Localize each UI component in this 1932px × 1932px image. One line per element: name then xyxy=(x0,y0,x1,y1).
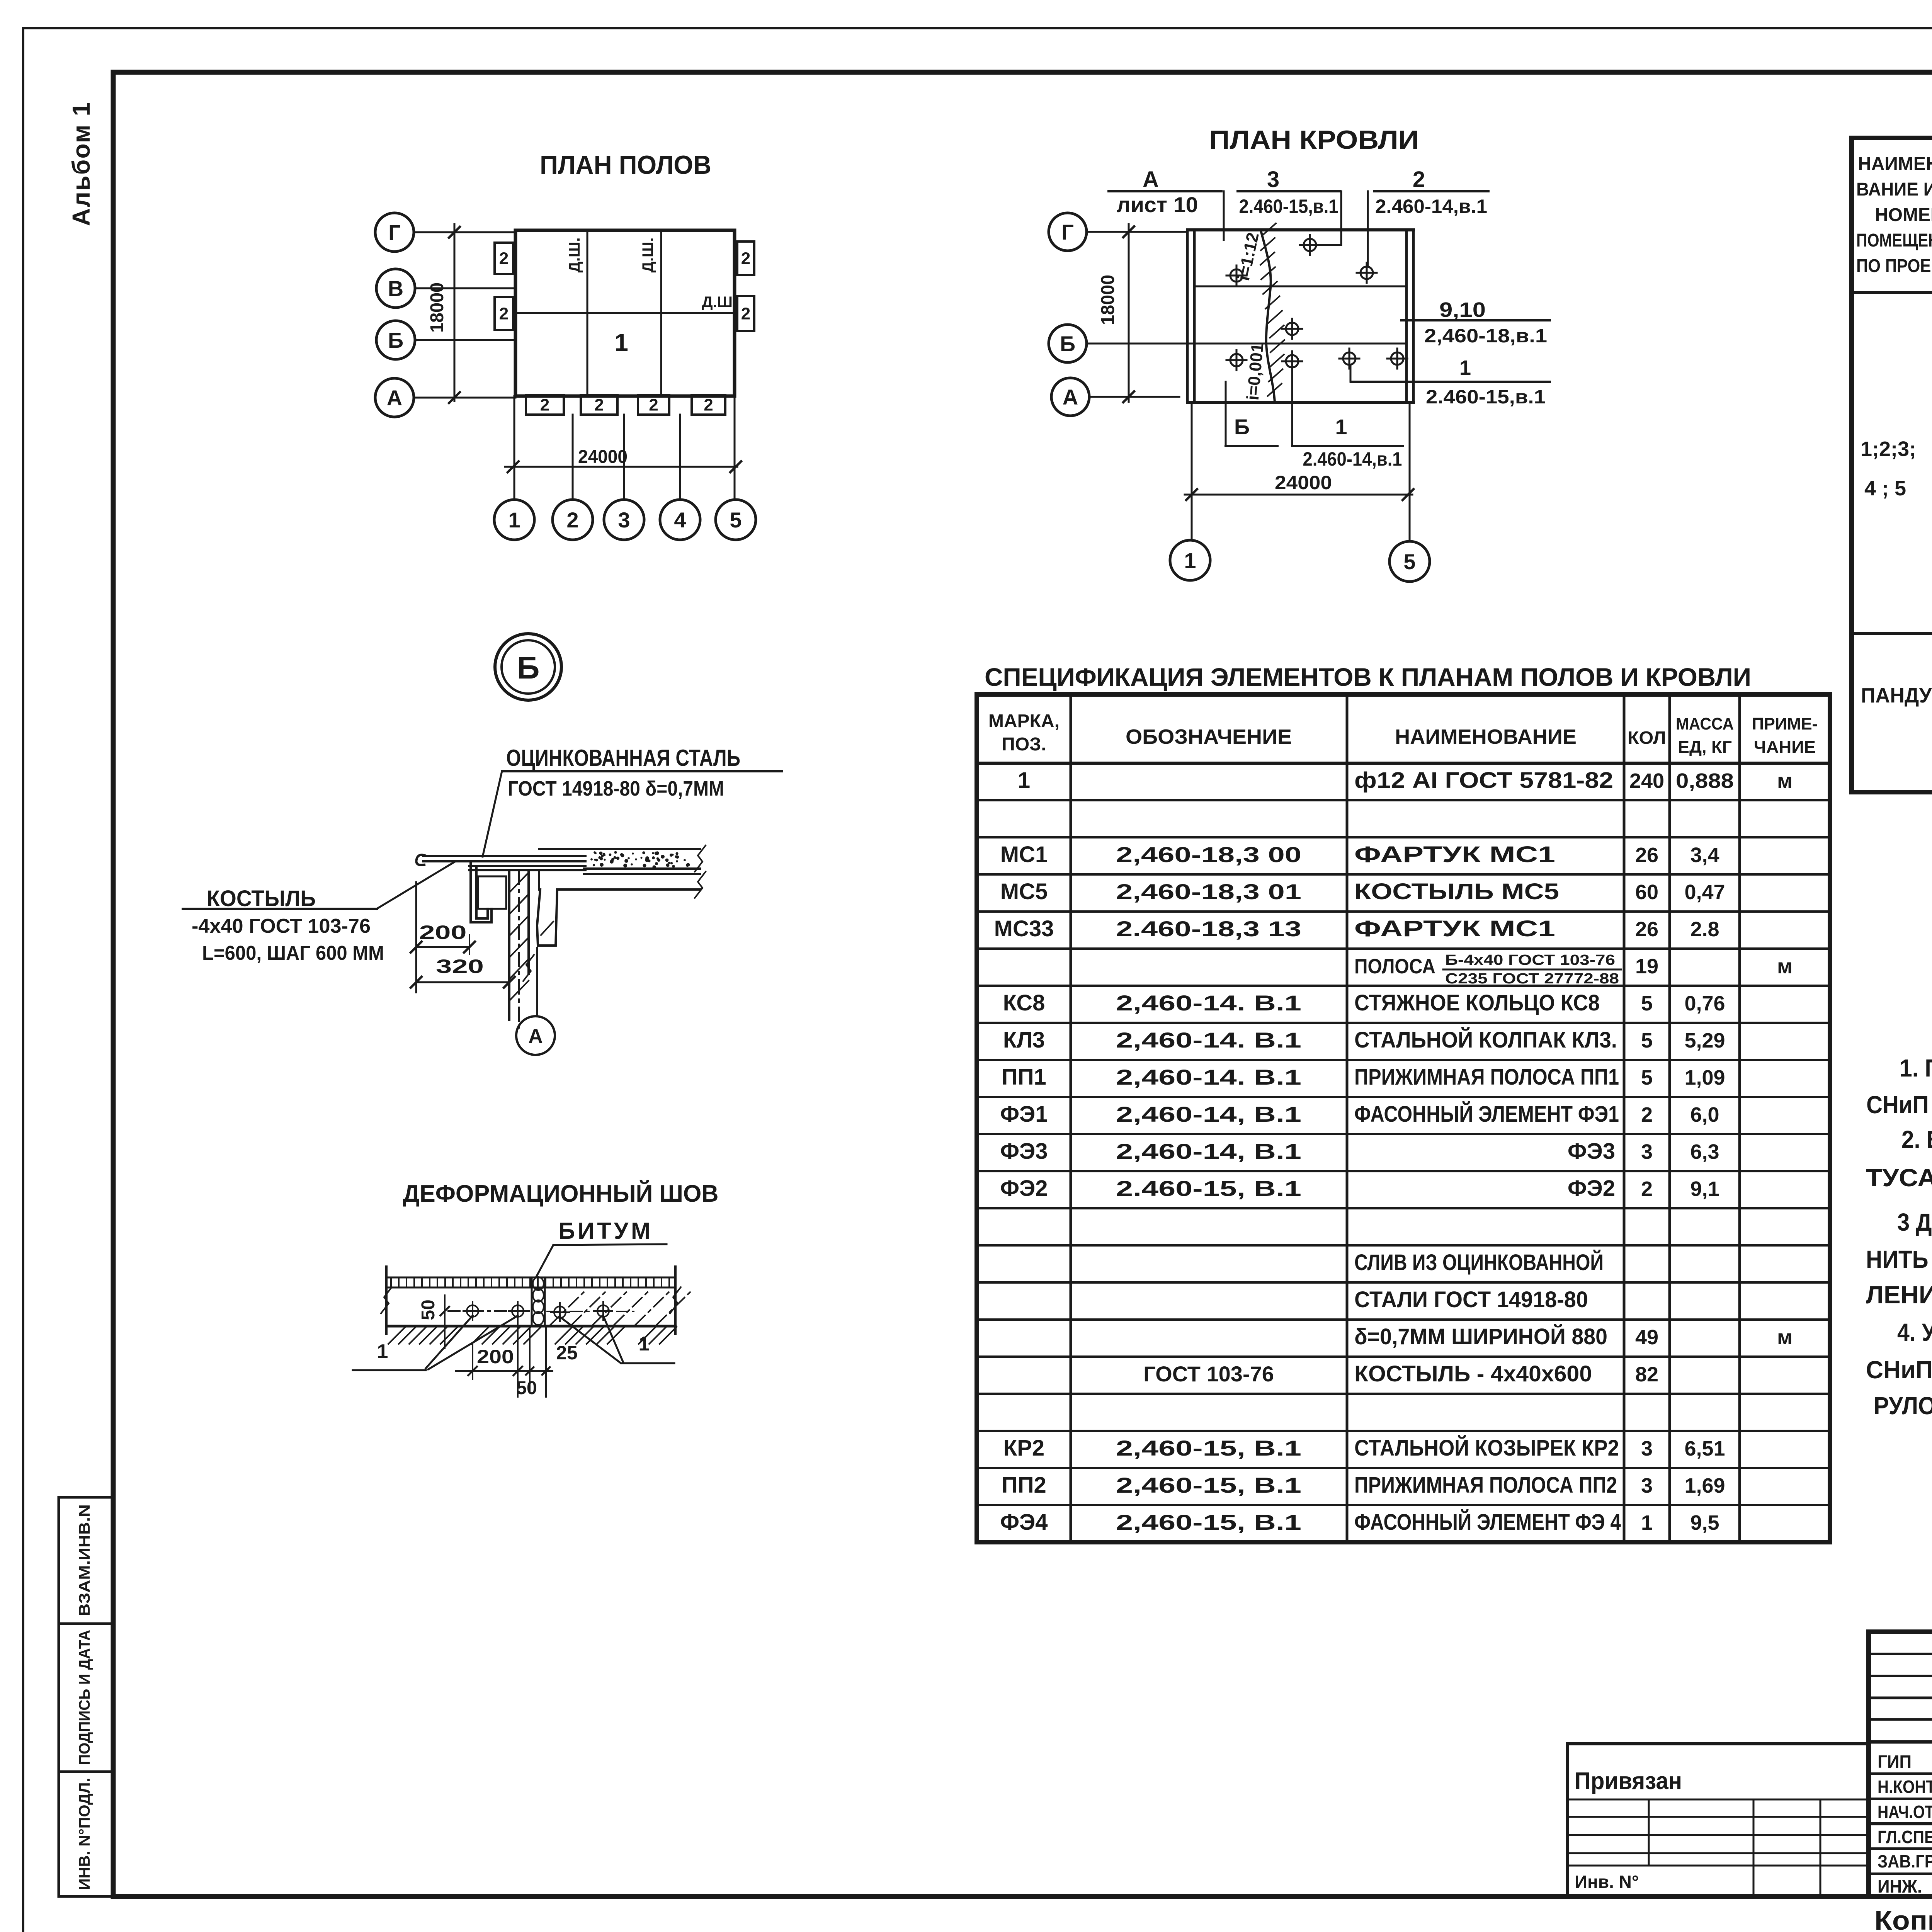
svg-text:2. ВО ВСЕХ ПОМЕЩЕНИЯХ ВЫПОЛН: 2. ВО ВСЕХ ПОМЕЩЕНИЯХ ВЫПОЛНИТЬ ЦЕМЕНТНО… xyxy=(1901,1126,1932,1153)
svg-text:2: 2 xyxy=(704,396,713,415)
svg-text:СНиП II-26-76, СЕРИИ 2.460-1: СНиП II-26-76, СЕРИИ 2.460-18 И „ РЕКОМЕ… xyxy=(1866,1355,1932,1384)
svg-text:3: 3 xyxy=(1641,1140,1653,1163)
svg-text:ОЦИНКОВАННАЯ СТАЛЬ: ОЦИНКОВАННАЯ СТАЛЬ xyxy=(506,745,740,771)
svg-text:24000: 24000 xyxy=(578,447,628,467)
svg-text:9,1: 9,1 xyxy=(1690,1177,1719,1201)
svg-text:А: А xyxy=(528,1025,543,1048)
svg-text:2: 2 xyxy=(741,249,750,268)
svg-text:Б: Б xyxy=(1060,332,1075,356)
svg-text:Б-4х40 ГОСТ 103-76: Б-4х40 ГОСТ 103-76 xyxy=(1445,952,1615,968)
svg-text:МАРКА,: МАРКА, xyxy=(988,711,1060,731)
svg-text:1: 1 xyxy=(1335,415,1347,439)
svg-text:3: 3 xyxy=(618,508,630,532)
svg-text:ПОЗ.: ПОЗ. xyxy=(1002,734,1046,755)
svg-text:ВЗАМ.ИНВ.N: ВЗАМ.ИНВ.N xyxy=(76,1504,93,1616)
svg-text:δ=0,7ММ ШИРИНОЙ 880: δ=0,7ММ ШИРИНОЙ 880 xyxy=(1354,1324,1607,1349)
svg-text:2: 2 xyxy=(741,304,750,323)
svg-text:1: 1 xyxy=(508,508,520,532)
svg-text:А: А xyxy=(1143,167,1159,192)
svg-text:18000: 18000 xyxy=(427,282,447,333)
svg-text:9,5: 9,5 xyxy=(1690,1511,1719,1534)
svg-text:СТЯЖНОЕ КОЛЬЦО КС8: СТЯЖНОЕ КОЛЬЦО КС8 xyxy=(1354,990,1600,1015)
svg-text:Д.Ш.: Д.Ш. xyxy=(639,238,656,273)
svg-text:ГОСТ 14918-80 δ=0,7ММ: ГОСТ 14918-80 δ=0,7ММ xyxy=(508,777,724,800)
svg-text:КЛ3: КЛ3 xyxy=(1003,1027,1045,1053)
svg-text:ПРИМЕ-: ПРИМЕ- xyxy=(1752,714,1818,733)
svg-text:1,69: 1,69 xyxy=(1684,1474,1725,1497)
svg-text:ф12 АІ ГОСТ 5781-82: ф12 АІ ГОСТ 5781-82 xyxy=(1354,768,1613,793)
svg-text:1,09: 1,09 xyxy=(1684,1066,1725,1089)
svg-text:1: 1 xyxy=(1018,768,1030,793)
svg-text:ПОЛОСА: ПОЛОСА xyxy=(1354,955,1435,978)
svg-text:2,460-15, В.1: 2,460-15, В.1 xyxy=(1116,1510,1301,1534)
svg-text:60: 60 xyxy=(1635,881,1658,904)
svg-text:ФАСОННЫЙ ЭЛЕМЕНТ ФЭ 4: ФАСОННЫЙ ЭЛЕМЕНТ ФЭ 4 xyxy=(1354,1510,1621,1535)
svg-text:26: 26 xyxy=(1635,844,1658,867)
svg-text:ФАРТУК МС1: ФАРТУК МС1 xyxy=(1354,842,1555,867)
svg-text:РУЛОННЫХ КРОВЕЛЬ.: РУЛОННЫХ КРОВЕЛЬ. xyxy=(1874,1392,1932,1420)
svg-text:200: 200 xyxy=(477,1346,514,1367)
svg-text:ФЭ3: ФЭ3 xyxy=(1568,1139,1615,1164)
svg-text:СПЕЦИФИКАЦИЯ ЭЛЕМЕНТОВ К ПЛАН: СПЕЦИФИКАЦИЯ ЭЛЕМЕНТОВ К ПЛАНАМ ПОЛОВ И … xyxy=(985,663,1751,691)
svg-text:А: А xyxy=(1063,385,1078,409)
svg-text:ФАРТУК МС1: ФАРТУК МС1 xyxy=(1354,916,1555,941)
svg-text:L=600, ШАГ 600 ММ: L=600, ШАГ 600 ММ xyxy=(202,942,384,964)
svg-text:СНиП 2.03.13-88 И С УЧЕТОМ П: СНиП 2.03.13-88 И С УЧЕТОМ ПРОКЛАДКИ ИНЖ… xyxy=(1866,1090,1932,1119)
svg-text:ИНЖ.: ИНЖ. xyxy=(1878,1876,1922,1896)
svg-text:2: 2 xyxy=(1641,1177,1653,1201)
svg-text:1. ПОЛЫ ВЫПОЛНИТЬ В СООТВЕТС: 1. ПОЛЫ ВЫПОЛНИТЬ В СООТВЕТСТВИИ С ТРЕБО… xyxy=(1900,1054,1932,1082)
svg-text:3 ДЕФОРМАЦИОННЫЕ ШВЫ, УКАЗАН: 3 ДЕФОРМАЦИОННЫЕ ШВЫ, УКАЗАННЫЕ НА ПЛАНЕ… xyxy=(1897,1208,1932,1236)
svg-text:ПП1: ПП1 xyxy=(1002,1065,1046,1090)
svg-text:МС5: МС5 xyxy=(1000,879,1048,904)
svg-text:1: 1 xyxy=(377,1340,388,1363)
svg-text:ФЭ4: ФЭ4 xyxy=(1000,1510,1048,1535)
svg-text:0,888: 0,888 xyxy=(1676,769,1734,793)
svg-text:ФЭ2: ФЭ2 xyxy=(1000,1176,1048,1201)
svg-text:СТАЛЬНОЙ КОЛПАК КЛ3.: СТАЛЬНОЙ КОЛПАК КЛ3. xyxy=(1354,1027,1617,1053)
svg-text:ПАНДУС: ПАНДУС xyxy=(1861,684,1932,707)
svg-text:2,460-14, В.1: 2,460-14, В.1 xyxy=(1116,1102,1301,1126)
svg-text:2.460-15, В.1: 2.460-15, В.1 xyxy=(1116,1176,1301,1201)
svg-text:24000: 24000 xyxy=(1275,472,1332,493)
svg-text:СТАЛИ ГОСТ 14918-80: СТАЛИ ГОСТ 14918-80 xyxy=(1354,1287,1588,1312)
svg-text:МС1: МС1 xyxy=(1000,842,1048,867)
svg-text:НАИМЕНО-: НАИМЕНО- xyxy=(1858,154,1932,174)
svg-text:3: 3 xyxy=(1641,1437,1653,1460)
svg-text:2,460-15, В.1: 2,460-15, В.1 xyxy=(1116,1473,1301,1497)
svg-text:ВАНИЕ ИЛИ: ВАНИЕ ИЛИ xyxy=(1856,179,1932,200)
svg-text:26: 26 xyxy=(1635,918,1658,941)
svg-text:КС8: КС8 xyxy=(1003,990,1045,1015)
svg-text:2,460-18,в.1: 2,460-18,в.1 xyxy=(1424,325,1547,347)
svg-text:КОЛ: КОЛ xyxy=(1628,728,1666,748)
svg-text:Б: Б xyxy=(388,328,403,352)
svg-text:м: м xyxy=(1777,1326,1793,1349)
svg-text:НИТЬ НА РАССТОЯНИИ 8М ВО В: НИТЬ НА РАССТОЯНИИ 8М ВО ВЗАИМНО-ПЕРПЕНД… xyxy=(1866,1245,1932,1273)
svg-text:Г: Г xyxy=(1061,220,1074,244)
svg-text:НАИМЕНОВАНИЕ: НАИМЕНОВАНИЕ xyxy=(1395,725,1577,748)
svg-text:2: 2 xyxy=(594,396,604,415)
svg-text:ИНВ. N°ПОДЛ.: ИНВ. N°ПОДЛ. xyxy=(76,1778,93,1890)
svg-text:1: 1 xyxy=(614,328,628,356)
svg-text:ФЭ1: ФЭ1 xyxy=(1000,1102,1048,1127)
svg-text:ТУСА ИЗ РАСТВОРА МАРКИ 150: ТУСА ИЗ РАСТВОРА МАРКИ 150 xyxy=(1866,1164,1932,1192)
svg-text:ФАСОННЫЙ ЭЛЕМЕНТ ФЭ1: ФАСОННЫЙ ЭЛЕМЕНТ ФЭ1 xyxy=(1354,1102,1619,1127)
svg-text:А: А xyxy=(387,386,402,410)
svg-text:Копировал: Копировал xyxy=(1874,1905,1932,1932)
svg-text:Привязан: Привязан xyxy=(1575,1768,1682,1794)
svg-text:6,0: 6,0 xyxy=(1690,1103,1719,1126)
svg-text:4: 4 xyxy=(674,508,686,532)
svg-text:ПЛАН ПОЛОВ: ПЛАН ПОЛОВ xyxy=(540,150,711,180)
svg-text:Д.Ш: Д.Ш xyxy=(702,294,733,311)
svg-text:2: 2 xyxy=(1413,167,1425,192)
svg-text:Б: Б xyxy=(1234,415,1250,439)
svg-text:2,460-18,3 00: 2,460-18,3 00 xyxy=(1116,842,1301,867)
svg-text:КОСТЫЛЬ: КОСТЫЛЬ xyxy=(207,886,316,911)
svg-text:2,460-14. В.1: 2,460-14. В.1 xyxy=(1116,991,1301,1015)
svg-text:ОБОЗНАЧЕНИЕ: ОБОЗНАЧЕНИЕ xyxy=(1126,725,1292,748)
svg-text:ЕД, КГ: ЕД, КГ xyxy=(1678,738,1732,757)
svg-text:2,460-15, В.1: 2,460-15, В.1 xyxy=(1116,1436,1301,1460)
svg-text:В: В xyxy=(388,276,403,301)
svg-text:БИТУМ: БИТУМ xyxy=(558,1218,650,1244)
svg-text:0,47: 0,47 xyxy=(1684,881,1725,904)
svg-text:СТАЛЬНОЙ КОЗЫРЕК КР2: СТАЛЬНОЙ КОЗЫРЕК КР2 xyxy=(1354,1435,1619,1461)
svg-text:6,51: 6,51 xyxy=(1684,1437,1725,1460)
svg-text:18000: 18000 xyxy=(1098,275,1118,325)
svg-text:200: 200 xyxy=(419,922,467,943)
svg-text:КР2: КР2 xyxy=(1003,1435,1044,1461)
svg-text:ФЭ3: ФЭ3 xyxy=(1000,1139,1048,1164)
svg-text:2,460-14, В.1: 2,460-14, В.1 xyxy=(1116,1139,1301,1163)
svg-text:ПЛАН КРОВЛИ: ПЛАН КРОВЛИ xyxy=(1209,125,1419,155)
svg-text:25: 25 xyxy=(556,1342,578,1364)
svg-text:МС33: МС33 xyxy=(994,916,1054,941)
svg-text:5: 5 xyxy=(1403,549,1415,574)
svg-text:ПРИЖИМНАЯ ПОЛОСА ПП1: ПРИЖИМНАЯ ПОЛОСА ПП1 xyxy=(1354,1065,1619,1090)
svg-text:НАЧ.ОТД: НАЧ.ОТД xyxy=(1878,1802,1932,1822)
svg-text:4. УСТРОЙСТВО КРОВЛИ ВЕСТИ: 4. УСТРОЙСТВО КРОВЛИ ВЕСТИ В СООТВЕТСТВИ… xyxy=(1897,1318,1932,1346)
svg-text:50: 50 xyxy=(516,1378,537,1398)
svg-text:5,29: 5,29 xyxy=(1684,1029,1725,1052)
svg-text:1: 1 xyxy=(1184,548,1196,573)
svg-text:2: 2 xyxy=(540,396,549,415)
svg-text:2,460-14. В.1: 2,460-14. В.1 xyxy=(1116,1028,1301,1052)
svg-text:м: м xyxy=(1777,769,1793,793)
svg-text:2: 2 xyxy=(566,508,578,532)
svg-text:Н.КОНТР.: Н.КОНТР. xyxy=(1878,1777,1932,1797)
svg-text:2,460-14. В.1: 2,460-14. В.1 xyxy=(1116,1065,1301,1089)
svg-text:ФЭ2: ФЭ2 xyxy=(1568,1176,1615,1201)
svg-text:Д.Ш.: Д.Ш. xyxy=(566,238,583,273)
svg-text:МАССА: МАССА xyxy=(1676,714,1734,733)
svg-text:5: 5 xyxy=(730,508,742,532)
svg-text:ПОДПИСЬ И ДАТА: ПОДПИСЬ И ДАТА xyxy=(76,1630,93,1765)
svg-text:-4х40 ГОСТ 103-76: -4х40 ГОСТ 103-76 xyxy=(192,915,371,937)
svg-text:3: 3 xyxy=(1267,167,1279,192)
svg-text:Б: Б xyxy=(517,650,540,685)
svg-text:19: 19 xyxy=(1635,955,1658,978)
svg-text:5: 5 xyxy=(1641,992,1653,1015)
svg-text:1: 1 xyxy=(1459,356,1471,379)
svg-text:НОМЕР: НОМЕР xyxy=(1875,205,1932,225)
svg-text:ЧАНИЕ: ЧАНИЕ xyxy=(1754,738,1816,757)
svg-text:2.460-15,в.1: 2.460-15,в.1 xyxy=(1239,196,1338,217)
svg-text:Альбом 1: Альбом 1 xyxy=(67,102,95,226)
svg-text:ГЛ.СПЕЦ: ГЛ.СПЕЦ xyxy=(1878,1827,1932,1847)
svg-text:2: 2 xyxy=(649,396,658,415)
svg-text:ПП2: ПП2 xyxy=(1002,1473,1046,1498)
svg-text:2.460-14,в.1: 2.460-14,в.1 xyxy=(1375,196,1487,217)
svg-text:КОСТЫЛЬ МС5: КОСТЫЛЬ МС5 xyxy=(1354,879,1559,904)
svg-text:5: 5 xyxy=(1641,1029,1653,1052)
svg-text:4 ; 5: 4 ; 5 xyxy=(1864,477,1906,500)
svg-text:КОСТЫЛЬ - 4х40х600: КОСТЫЛЬ - 4х40х600 xyxy=(1354,1361,1592,1386)
svg-text:Г: Г xyxy=(388,220,401,245)
svg-text:ЗАВ.ГР.: ЗАВ.ГР. xyxy=(1878,1851,1932,1871)
svg-text:ПО ПРОЕКТУ: ПО ПРОЕКТУ xyxy=(1856,256,1932,276)
svg-text:6,3: 6,3 xyxy=(1690,1140,1719,1163)
svg-text:2: 2 xyxy=(1641,1103,1653,1126)
svg-text:2.460-18,3 13: 2.460-18,3 13 xyxy=(1116,917,1301,941)
svg-text:2.8: 2.8 xyxy=(1690,918,1719,941)
svg-text:ДЕФОРМАЦИОННЫЙ ШОВ: ДЕФОРМАЦИОННЫЙ ШОВ xyxy=(403,1180,719,1207)
svg-text:лист 10: лист 10 xyxy=(1117,192,1198,217)
svg-text:49: 49 xyxy=(1635,1326,1658,1349)
svg-text:2.460-15,в.1: 2.460-15,в.1 xyxy=(1426,386,1546,408)
svg-text:2: 2 xyxy=(499,249,509,268)
svg-text:2.460-14,в.1: 2.460-14,в.1 xyxy=(1303,448,1402,470)
svg-text:1;2;3;: 1;2;3; xyxy=(1861,437,1916,461)
svg-text:320: 320 xyxy=(436,956,484,977)
svg-text:С235 ГОСТ 27772-88: С235 ГОСТ 27772-88 xyxy=(1445,971,1619,987)
svg-text:ГОСТ 103-76: ГОСТ 103-76 xyxy=(1143,1362,1274,1386)
svg-text:240: 240 xyxy=(1629,769,1664,793)
svg-text:82: 82 xyxy=(1635,1363,1658,1386)
svg-text:0,76: 0,76 xyxy=(1684,992,1725,1015)
svg-text:3: 3 xyxy=(1641,1474,1653,1497)
svg-text:3,4: 3,4 xyxy=(1690,844,1719,867)
svg-text:1: 1 xyxy=(639,1333,650,1355)
svg-text:СЛИВ ИЗ ОЦИНКОВАННОЙ: СЛИВ ИЗ ОЦИНКОВАННОЙ xyxy=(1354,1250,1604,1275)
svg-text:9,10: 9,10 xyxy=(1439,298,1486,321)
svg-text:2: 2 xyxy=(499,304,509,323)
svg-text:Инв. N°: Инв. N° xyxy=(1575,1872,1639,1892)
svg-text:1: 1 xyxy=(1641,1511,1653,1534)
svg-text:50: 50 xyxy=(418,1299,439,1320)
svg-text:2,460-18,3 01: 2,460-18,3 01 xyxy=(1116,879,1301,904)
svg-text:ГИП: ГИП xyxy=(1878,1752,1912,1772)
svg-text:ЛЕНИЯХ ШИРИНОЙ 25ММ; ШВЫ ЗА: ЛЕНИЯХ ШИРИНОЙ 25ММ; ШВЫ ЗАПОЛНИТЬ БИТУМ… xyxy=(1866,1281,1932,1309)
svg-text:5: 5 xyxy=(1641,1066,1653,1089)
svg-text:ПОМЕЩЕНИЯ: ПОМЕЩЕНИЯ xyxy=(1856,230,1932,251)
svg-text:м: м xyxy=(1777,955,1793,978)
svg-text:ПРИЖИМНАЯ ПОЛОСА ПП2: ПРИЖИМНАЯ ПОЛОСА ПП2 xyxy=(1354,1473,1617,1498)
